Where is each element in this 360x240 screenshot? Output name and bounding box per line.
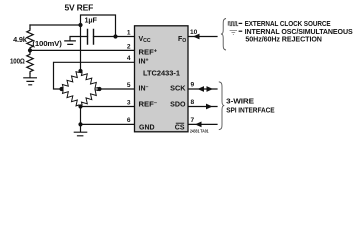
- resistor R1 4.9k: [27, 29, 33, 50]
- node bridge left dot: [59, 87, 63, 91]
- wire bridge bottom to ground: [80, 107, 82, 132]
- wire SDO pin 8: [188, 106, 217, 108]
- svg-text:3-WIRE: 3-WIRE: [226, 96, 254, 105]
- wire CS pin 7: [188, 123, 217, 125]
- arrowhead pin7 left: [195, 122, 202, 128]
- arrowhead pin8 right: [206, 104, 213, 110]
- svg-text:1µF: 1µF: [85, 16, 98, 25]
- arrowhead pin9 right: [207, 86, 214, 92]
- ground GND3 (bridge bottom): [74, 132, 86, 136]
- svg-text:VCC: VCC: [139, 36, 151, 44]
- node bridge bottom dot: [78, 104, 82, 108]
- wire IN+ pin 4 from bridge left: [54, 62, 135, 89]
- svg-text:7: 7: [191, 117, 195, 124]
- node GND junction dot: [78, 122, 82, 126]
- svg-text:8: 8: [191, 99, 195, 106]
- dash row1: [239, 22, 243, 24]
- svg-text:CS: CS: [175, 125, 185, 132]
- svg-text:4: 4: [127, 55, 131, 62]
- svg-text:SPI INTERFACE: SPI INTERFACE: [226, 105, 274, 114]
- wire REF+ pin 2: [30, 49, 135, 51]
- resistor R2 100ohm: [27, 53, 33, 74]
- node A 5V junction dot: [78, 23, 82, 27]
- node B VCC junction dot: [113, 34, 117, 38]
- node bridge right dot: [97, 87, 101, 91]
- svg-text:50Hz/60Hz REJECTION: 50Hz/60Hz REJECTION: [245, 35, 322, 44]
- ground GND2 (bypass cap): [65, 41, 76, 45]
- svg-text:(100mV): (100mV): [32, 41, 61, 48]
- brace top (clock options): [221, 19, 226, 51]
- node C 100mV junction dot: [28, 48, 32, 52]
- svg-text:6: 6: [127, 117, 131, 124]
- icon internal osc (ground symbol): [230, 31, 237, 35]
- svg-text:LTC2433-1: LTC2433-1: [143, 71, 180, 78]
- wire cap to VCC pin 1: [94, 36, 135, 38]
- bridge resistor RB4 (right-bottom arm): [81, 89, 100, 107]
- svg-text:3: 3: [127, 99, 131, 106]
- ground GND1 (below 100ohm): [24, 78, 37, 85]
- wire rail vertical top: [29, 25, 31, 29]
- arrowhead pin10 into FO: [193, 34, 200, 40]
- svg-text:FO: FO: [178, 36, 186, 44]
- wire 5V loop up-over to VCC: [81, 15, 116, 37]
- svg-text:2: 2: [127, 43, 131, 50]
- svg-text:5V REF: 5V REF: [65, 3, 94, 13]
- wire 5V down to bridge top: [80, 25, 82, 71]
- capacitor C1 1uF plates: [88, 30, 94, 45]
- node bridge top dot: [78, 69, 82, 73]
- svg-text:SCK: SCK: [170, 86, 185, 93]
- svg-text:5: 5: [127, 82, 131, 89]
- svg-text:100Ω: 100Ω: [10, 57, 25, 66]
- overline for CS: [176, 122, 184, 124]
- svg-text:24331 TA01: 24331 TA01: [190, 128, 209, 133]
- svg-text:SDO: SDO: [170, 102, 186, 109]
- wire 5V REF rail top: [30, 24, 81, 26]
- wire SCK pin 9: [188, 88, 217, 90]
- wire GND pin 6: [81, 123, 135, 125]
- brace bottom (SPI): [219, 82, 224, 130]
- op-amp U1 LTC2433-1 IC body: [135, 26, 189, 132]
- wire rail bottom stub: [29, 74, 31, 78]
- bridge resistor RB2 (top-right arm): [81, 71, 100, 89]
- svg-text:4.9k: 4.9k: [13, 35, 28, 44]
- bridge resistor RB1 (top-left arm): [62, 71, 81, 89]
- bridge resistor RB3 (left-bottom arm): [62, 89, 81, 107]
- wire IN- pin 5 from bridge right: [100, 88, 135, 90]
- svg-text:10: 10: [190, 29, 198, 36]
- wire REF- pin 3 from bridge bottom: [81, 106, 135, 108]
- svg-text:1: 1: [127, 29, 131, 36]
- wire cap ground lead: [70, 37, 88, 41]
- arrowhead pin9 left: [198, 86, 205, 92]
- svg-text:GND: GND: [139, 125, 155, 132]
- dash row2: [239, 30, 243, 32]
- icon external clock (square wave): [228, 22, 238, 26]
- wire rail mid: [29, 50, 31, 53]
- svg-text:9: 9: [191, 81, 195, 88]
- wire FO pin 10: [188, 36, 217, 38]
